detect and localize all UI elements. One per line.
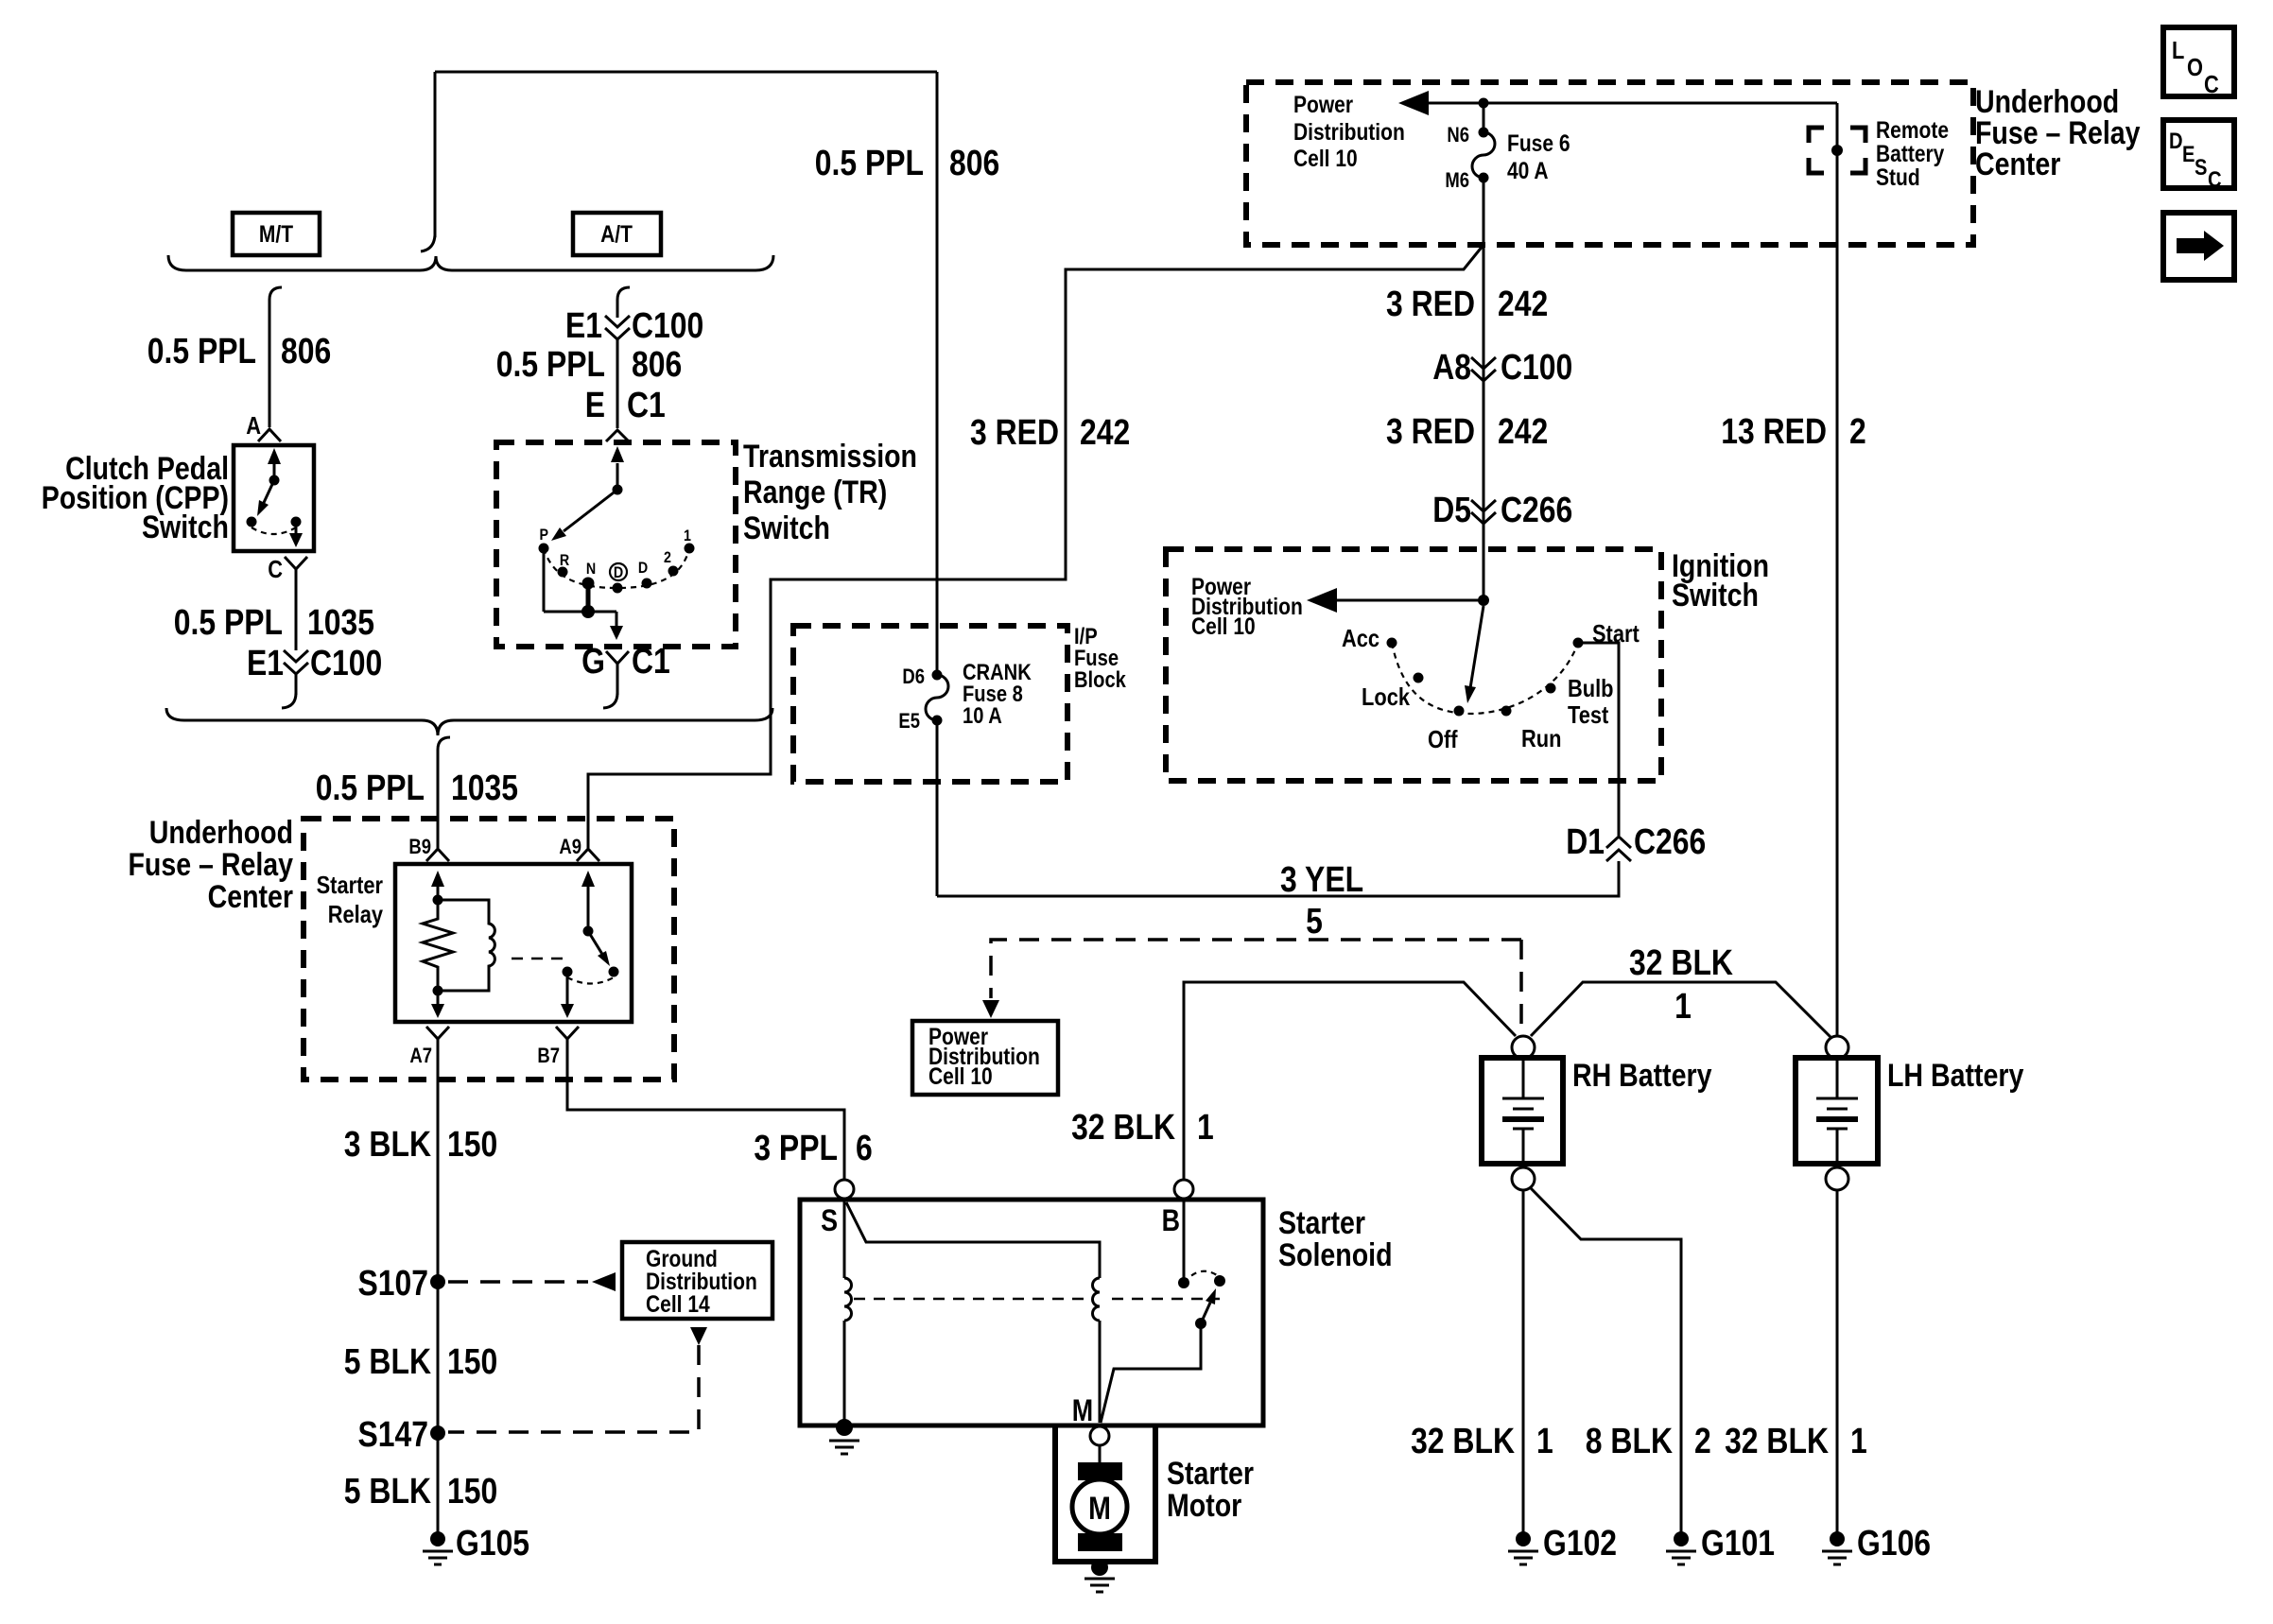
LH battery negative terminal ring: [1826, 1167, 1848, 1190]
svg-text:32 BLK: 32 BLK: [1629, 942, 1733, 982]
svg-text:G106: G106: [1857, 1523, 1931, 1563]
svg-text:C: C: [2204, 71, 2219, 98]
ignition switch box (dashed): [1166, 549, 1661, 781]
svg-text:1: 1: [1674, 986, 1692, 1026]
ignition: arrow to power distribution: [1335, 599, 1484, 602]
svg-text:Transmission: Transmission: [743, 439, 917, 475]
svg-text:Fuse – Relay: Fuse – Relay: [128, 847, 293, 883]
LH battery positive terminal ring: [1826, 1036, 1848, 1059]
svg-text:N6: N6: [1447, 125, 1469, 147]
svg-text:S107: S107: [357, 1263, 428, 1303]
svg-text:Center: Center: [1975, 147, 2060, 182]
svg-text:E: E: [585, 385, 605, 424]
svg-text:D: D: [614, 564, 623, 581]
TR position circled D (drive): [610, 563, 627, 580]
TR position dot 1: [685, 544, 695, 554]
svg-text:1: 1: [684, 527, 691, 544]
svg-text:C100: C100: [1501, 347, 1572, 387]
connector chevron at pin A7: [426, 1027, 449, 1039]
relay: coil (inductor) in parallel: [438, 900, 495, 991]
wire hook below bottom brace: [438, 737, 450, 750]
svg-text:32 BLK: 32 BLK: [1071, 1107, 1175, 1147]
svg-text:Test: Test: [1568, 701, 1608, 729]
svg-text:Solenoid: Solenoid: [1278, 1237, 1393, 1273]
svg-text:Cell 10: Cell 10: [1293, 145, 1358, 171]
svg-text:D1: D1: [1566, 821, 1605, 861]
LH battery box: [1796, 1058, 1878, 1164]
RH battery box: [1482, 1058, 1563, 1164]
wire: Start contact out of ignition switch: [1578, 643, 1619, 836]
svg-text:40 A: 40 A: [1507, 157, 1549, 183]
svg-text:3 RED: 3 RED: [970, 412, 1059, 452]
arrow from ground distribution box down: [690, 1327, 707, 1345]
svg-text:C: C: [2208, 166, 2222, 192]
svg-text:3 BLK: 3 BLK: [344, 1124, 431, 1164]
solenoid: winding to case ground: [843, 1321, 846, 1422]
solenoid: pull-in winding (coil): [1093, 1278, 1100, 1321]
relay: resistor (zigzag): [423, 900, 453, 990]
clutch pedal position (CPP) switch box: [234, 445, 314, 551]
svg-text:Switch: Switch: [1672, 578, 1759, 613]
svg-text:Starter: Starter: [1278, 1205, 1365, 1241]
svg-text:A8: A8: [1432, 347, 1471, 387]
underhood fuse-relay center box (dashed, left): [304, 819, 674, 1080]
svg-text:S: S: [821, 1204, 838, 1238]
svg-text:10 A: 10 A: [963, 702, 1002, 728]
relay: dashed contact travel arc: [567, 977, 614, 984]
motor brush cap (bottom): [1078, 1533, 1122, 1551]
options brace (top) over M/T and A/T: [168, 255, 773, 270]
TR internal: bottom horizontal wire: [544, 611, 616, 613]
svg-text:B: B: [1162, 1204, 1180, 1238]
relay: switch arm arrow: [588, 931, 603, 956]
solenoid: moving contact dot and arrow: [1195, 1318, 1206, 1329]
solenoid: B contact feed: [1183, 1199, 1186, 1278]
ignition position Start: [1573, 638, 1584, 648]
svg-text:Acc: Acc: [1342, 625, 1379, 652]
TR position dot P: [539, 544, 549, 554]
CPP internal: entry arrow up: [273, 461, 276, 478]
svg-text:0.5 PPL: 0.5 PPL: [147, 331, 256, 371]
svg-text:RH Battery: RH Battery: [1572, 1058, 1712, 1094]
svg-text:2: 2: [1849, 411, 1866, 451]
relay: NC contact dot: [609, 967, 619, 977]
svg-text:0.5 PPL: 0.5 PPL: [815, 143, 924, 182]
svg-text:Switch: Switch: [743, 510, 830, 546]
TR position dot 2: [668, 566, 679, 577]
svg-text:3 RED: 3 RED: [1386, 284, 1475, 323]
wire: crank fuse output down to 3 YEL: [936, 720, 939, 896]
svg-text:R: R: [560, 552, 569, 569]
svg-text:Cell 10: Cell 10: [928, 1063, 993, 1089]
wire: A/T branch down: [616, 300, 619, 318]
svg-text:G102: G102: [1543, 1523, 1617, 1563]
svg-text:E5: E5: [898, 711, 920, 734]
ignition: dashed detent arc: [1392, 643, 1578, 714]
wire: RH battery negative to ground G102: [1522, 1190, 1525, 1539]
relay: B7 exit arrow down: [566, 974, 569, 1004]
svg-text:Range (TR): Range (TR): [743, 475, 887, 510]
svg-text:242: 242: [1498, 411, 1548, 451]
svg-text:C: C: [268, 556, 283, 583]
CPP internal: dashed travel arc: [252, 527, 296, 534]
wire: LH battery negative to ground G106: [1836, 1190, 1839, 1539]
svg-text:C100: C100: [632, 305, 703, 345]
wire: A7 down to S107: [437, 1039, 440, 1278]
svg-text:5: 5: [1306, 901, 1323, 941]
solenoid: hold-in winding (coil): [844, 1278, 852, 1321]
svg-text:Underhood: Underhood: [149, 815, 293, 851]
svg-text:Off: Off: [1428, 726, 1458, 753]
wire: remote battery stud down to LH battery (13 RED 2): [1836, 103, 1839, 1036]
terminal B ring: [1174, 1180, 1193, 1199]
svg-text:G101: G101: [1701, 1523, 1775, 1563]
terminal S ring: [835, 1180, 854, 1199]
svg-text:Center: Center: [208, 879, 293, 915]
svg-text:2: 2: [1694, 1421, 1711, 1460]
svg-text:Motor: Motor: [1167, 1488, 1241, 1524]
ground G106: [1830, 1531, 1845, 1546]
svg-text:1035: 1035: [451, 768, 518, 807]
wire: tap down to fuse 6: [1483, 103, 1485, 131]
svg-text:150: 150: [447, 1341, 497, 1381]
ignition position Run: [1501, 706, 1512, 717]
CPP internal: switch arm arrow: [262, 480, 274, 507]
svg-text:Cell 10: Cell 10: [1191, 613, 1256, 639]
solenoid: dashed plunger linkage: [854, 1298, 1220, 1301]
fuse 6 element: [1472, 132, 1495, 178]
solenoid: dashed contact arc: [1184, 1271, 1220, 1283]
wire hook at brace center top: [421, 235, 435, 251]
svg-text:A7: A7: [409, 1045, 432, 1068]
svg-text:A/T: A/T: [600, 220, 633, 247]
svg-text:Power: Power: [1293, 91, 1353, 117]
svg-text:Run: Run: [1521, 725, 1561, 752]
connector chevron at TR pin E: [606, 430, 629, 441]
svg-text:D: D: [2169, 128, 2183, 153]
svg-text:2: 2: [664, 549, 671, 566]
svg-text:5 BLK: 5 BLK: [344, 1471, 431, 1511]
relay: switch pivot dot: [583, 926, 594, 937]
arrow into power distribution cell 10 box: [982, 1000, 999, 1018]
wire: fuse 6 output down to ignition switch (3 RED 242): [1483, 178, 1485, 600]
svg-text:6: 6: [856, 1128, 873, 1167]
TR internal: wire from N down (thick): [586, 584, 591, 612]
svg-text:O: O: [2187, 54, 2203, 81]
wire: 0.5 PPL 806 vertical feed: [936, 72, 939, 675]
svg-text:0.5 PPL: 0.5 PPL: [316, 768, 425, 807]
svg-text:13 RED: 13 RED: [1721, 411, 1827, 451]
DESC icon box: [2163, 120, 2234, 188]
svg-text:Stud: Stud: [1876, 164, 1920, 190]
TR internal: selector arm arrow to P: [564, 490, 617, 531]
M/T option box: [233, 213, 320, 255]
svg-text:C100: C100: [310, 643, 382, 682]
wire: S147 to ground G105: [437, 1433, 440, 1539]
svg-text:Starter: Starter: [317, 872, 383, 899]
svg-text:C266: C266: [1501, 490, 1572, 529]
svg-text:Block: Block: [1074, 666, 1126, 692]
TR position dot R: [558, 567, 568, 578]
svg-text:S147: S147: [357, 1414, 428, 1454]
solenoid: pull-in winding to M: [1099, 1321, 1102, 1423]
solenoid: case ground symbol: [829, 1441, 859, 1454]
svg-text:E: E: [2182, 141, 2195, 166]
svg-text:M: M: [1072, 1394, 1093, 1428]
remote battery stud dashed brackets: [1809, 128, 1865, 173]
wire below TR with hook to lower brace: [616, 664, 619, 695]
ignition: feed junction dot: [1478, 595, 1489, 606]
ground G105: [430, 1531, 445, 1546]
dashed reference line from S107 to ground distribution: [448, 1280, 588, 1284]
connector chevron at TR pin G: [606, 651, 629, 664]
solenoid: B contact dot: [1178, 1277, 1189, 1288]
TR position dot D: [642, 579, 652, 589]
svg-text:C266: C266: [1634, 821, 1706, 861]
svg-text:B9: B9: [408, 837, 431, 859]
svg-text:806: 806: [949, 143, 999, 182]
svg-text:1035: 1035: [307, 602, 374, 642]
svg-text:D: D: [638, 560, 648, 577]
motor armature circle with M: [1072, 1479, 1127, 1534]
wire: brace to B9 of underhood fuse-relay center: [437, 750, 440, 848]
ground distribution cell 14 box: [622, 1242, 772, 1319]
RH battery positive terminal ring: [1512, 1036, 1535, 1059]
wire: battery feed bus with arrow to power distribution: [1427, 102, 1837, 105]
svg-text:S: S: [2195, 154, 2207, 180]
relay: common contact dot: [563, 967, 573, 977]
solenoid: case ground dot: [836, 1419, 853, 1436]
connector chevron at pin B7: [556, 1027, 579, 1039]
svg-text:5 BLK: 5 BLK: [344, 1341, 431, 1381]
svg-text:32 BLK: 32 BLK: [1725, 1421, 1829, 1460]
motor ground: [1091, 1559, 1108, 1576]
transmission range (TR) switch box (dashed): [496, 442, 736, 647]
CPP internal: pivot dot: [269, 475, 280, 486]
relay: dashed actuation link from coil: [512, 958, 571, 960]
svg-text:B7: B7: [537, 1045, 560, 1068]
svg-text:Distribution: Distribution: [1293, 118, 1405, 145]
svg-text:806: 806: [281, 331, 331, 371]
TR internal: exit arrow down: [616, 612, 618, 627]
pin E5: [932, 716, 943, 726]
CPP internal: exit arrow down: [295, 527, 298, 535]
relay: coil bottom node dot: [433, 986, 443, 996]
CPP internal: right contact dot: [291, 517, 302, 527]
wire: 3 YEL 5 from crank fuse to D1: [937, 861, 1619, 896]
connector chevron at CPP pin A: [258, 429, 281, 441]
wire: vertical drop to M/T / A/T options brace: [434, 72, 437, 237]
A/T option box: [573, 213, 661, 255]
ignition position Lock: [1414, 673, 1424, 683]
svg-text:3 RED: 3 RED: [1386, 411, 1475, 451]
connector chevron at pin B9: [426, 849, 449, 861]
ground G102: [1516, 1531, 1531, 1546]
wire: S107 to S147: [437, 1282, 440, 1433]
wire below E1 C100 with hook to lower brace: [295, 674, 298, 695]
dashed power distribution tie line (circuit 5): [991, 940, 1521, 1030]
TR internal: wire from P down: [543, 550, 546, 612]
svg-text:N: N: [586, 561, 596, 578]
ground G101: [1674, 1531, 1689, 1546]
underhood fuse-relay center box (dashed, top right): [1246, 82, 1973, 245]
svg-text:Starter: Starter: [1167, 1456, 1254, 1492]
svg-text:Remote: Remote: [1876, 116, 1949, 143]
svg-text:Switch: Switch: [142, 510, 229, 545]
solenoid: S branch to pull-in winding: [846, 1202, 1100, 1278]
motor brush cap (top): [1078, 1462, 1122, 1480]
wire: 32 BLK 1 battery tie RH to LH: [1531, 982, 1831, 1037]
pin M6: [1479, 173, 1489, 183]
terminal M ring: [1090, 1426, 1109, 1445]
svg-text:242: 242: [1498, 284, 1548, 323]
dashed reference line to S147: [448, 1345, 699, 1432]
TR internal: entry arrow up: [616, 463, 619, 489]
LOC icon box: [2163, 27, 2234, 96]
svg-text:G105: G105: [456, 1523, 529, 1563]
svg-text:150: 150: [447, 1124, 497, 1164]
svg-text:242: 242: [1080, 412, 1130, 452]
svg-text:M6: M6: [1445, 170, 1469, 193]
svg-text:C1: C1: [632, 641, 670, 681]
crank fuse 8 element: [926, 675, 948, 720]
svg-text:LH Battery: LH Battery: [1887, 1058, 2024, 1094]
connector chevron at CPP pin C: [285, 557, 307, 569]
svg-text:Relay: Relay: [328, 901, 384, 928]
svg-text:150: 150: [447, 1471, 497, 1511]
svg-text:0.5 PPL: 0.5 PPL: [496, 344, 605, 384]
power distribution cell 10 box (middle): [912, 1021, 1058, 1095]
TR internal: dashed position arc: [544, 548, 689, 588]
svg-text:Bulb: Bulb: [1568, 675, 1614, 702]
LH battery cell plates: [1816, 1058, 1858, 1164]
pin N6: [1479, 128, 1489, 138]
ignition: key arrow to Off position: [1470, 606, 1484, 688]
CPP internal: left contact dot: [247, 517, 257, 527]
solenoid: NC contact dot: [1214, 1275, 1225, 1287]
wire: down to TR switch: [616, 339, 619, 428]
wire hook: M/T branch start: [269, 287, 282, 300]
pin D6: [932, 670, 943, 681]
connector chevron at pin A9: [577, 849, 599, 861]
relay: A9 entry arrow up: [587, 887, 590, 930]
svg-text:L: L: [2172, 37, 2184, 64]
starter motor frame: [1055, 1425, 1155, 1562]
svg-text:1: 1: [1197, 1107, 1214, 1147]
solenoid: contact wire down to M: [1101, 1323, 1201, 1423]
wire: CPP C down: [295, 569, 298, 650]
svg-text:Fuse 6: Fuse 6: [1507, 130, 1570, 156]
svg-text:3 PPL: 3 PPL: [754, 1128, 838, 1167]
forward arrow icon box: [2163, 213, 2234, 280]
wire: top feed horizontal 0.5 PPL 806: [435, 71, 937, 74]
starter solenoid box: [800, 1200, 1263, 1425]
relay: B9 entry arrow up: [437, 887, 440, 899]
splice S147: [430, 1425, 445, 1441]
svg-text:Battery: Battery: [1876, 140, 1944, 166]
TR internal: pivot dot: [613, 485, 623, 495]
svg-text:3 YEL: 3 YEL: [1280, 859, 1363, 899]
wire: M/T branch down to CPP switch: [269, 300, 271, 427]
svg-text:G: G: [581, 641, 605, 681]
svg-text:M/T: M/T: [259, 220, 293, 247]
svg-text:C1: C1: [627, 385, 666, 424]
wire: M terminal to motor: [1099, 1445, 1102, 1464]
relay: coil top node dot: [433, 895, 443, 906]
RH battery negative terminal ring: [1512, 1167, 1535, 1190]
ignition position Acc: [1387, 638, 1397, 648]
svg-text:Lock: Lock: [1362, 683, 1411, 711]
RH battery cell plates: [1502, 1058, 1544, 1164]
svg-text:1: 1: [1850, 1421, 1867, 1460]
wire: B7 down then right to starter solenoid S: [567, 1039, 844, 1179]
I/P fuse block box (dashed): [793, 626, 1067, 782]
svg-text:1: 1: [1536, 1421, 1553, 1460]
TR internal: junction dot: [581, 605, 595, 618]
solenoid: S feed to hold-in winding: [843, 1199, 846, 1278]
ignition position Off: [1454, 706, 1465, 717]
svg-text:806: 806: [632, 344, 682, 384]
svg-text:8 BLK: 8 BLK: [1586, 1421, 1673, 1460]
wire: solenoid B up and over to batteries: [1184, 982, 1516, 1179]
ignition position Bulb Test: [1546, 683, 1556, 694]
junction dot at fuse 6 tap: [1479, 98, 1489, 109]
svg-text:A9: A9: [559, 837, 581, 859]
svg-text:D5: D5: [1432, 490, 1471, 529]
svg-text:Cell 14: Cell 14: [646, 1290, 710, 1317]
wire: RH battery negative branch to ground G101: [1531, 1188, 1681, 1539]
svg-text:0.5 PPL: 0.5 PPL: [174, 602, 283, 642]
wire hook: A/T branch start: [617, 287, 630, 300]
starter relay box: [395, 864, 632, 1022]
svg-text:E1: E1: [565, 305, 602, 345]
wire: branch from fuse output to crank fuse (3 RED 242): [588, 245, 1484, 848]
svg-text:32 BLK: 32 BLK: [1411, 1421, 1515, 1460]
splice S107: [430, 1274, 445, 1289]
svg-text:E1: E1: [247, 643, 284, 682]
options brace (bottom) joining M/T and A/T paths: [166, 708, 772, 735]
relay: A7 exit arrow down: [437, 991, 440, 1004]
svg-text:A: A: [246, 412, 261, 440]
remote battery stud dot: [1831, 145, 1843, 156]
svg-text:D6: D6: [902, 666, 925, 689]
TR position dot N: [582, 578, 595, 590]
svg-text:M: M: [1088, 1491, 1111, 1527]
svg-text:P: P: [539, 527, 548, 544]
